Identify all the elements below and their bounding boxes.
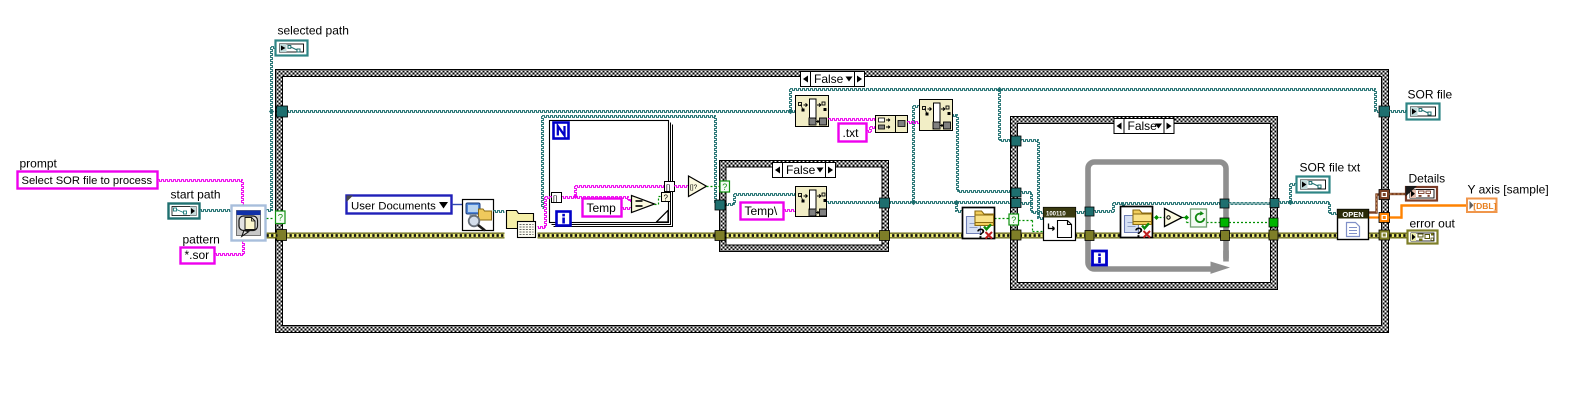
svg-text:selected path: selected path xyxy=(278,24,349,38)
svg-text:.txt: .txt xyxy=(843,126,860,140)
svg-text:[]?: []? xyxy=(690,184,698,191)
svg-text:Temp\: Temp\ xyxy=(745,204,778,218)
svg-text:Y axis [sample]: Y axis [sample] xyxy=(1468,183,1549,197)
svg-text:False: False xyxy=(1128,119,1158,133)
svg-text:User Documents: User Documents xyxy=(351,201,436,213)
svg-text:[]: [] xyxy=(666,183,670,192)
svg-text:[DBL]: [DBL] xyxy=(1473,201,1496,211)
svg-text:?: ? xyxy=(1011,215,1016,225)
svg-text:*.sor: *.sor xyxy=(185,248,210,262)
svg-text:False: False xyxy=(786,163,816,177)
svg-text:?: ? xyxy=(722,182,727,192)
svg-text:error out: error out xyxy=(1410,217,1456,231)
svg-text:pattern: pattern xyxy=(183,233,220,247)
svg-text:SOR file: SOR file xyxy=(1408,88,1453,102)
svg-text:Select SOR file to process: Select SOR file to process xyxy=(22,175,153,187)
svg-text:False: False xyxy=(814,72,844,86)
svg-text:Details: Details xyxy=(1409,172,1446,186)
svg-text:OPEN: OPEN xyxy=(1342,210,1363,219)
svg-text:100110: 100110 xyxy=(1046,212,1066,218)
svg-text:[]: [] xyxy=(553,194,557,203)
svg-text:SOR file txt: SOR file txt xyxy=(1300,161,1361,175)
svg-text:?: ? xyxy=(278,213,283,224)
svg-text:prompt: prompt xyxy=(20,157,58,171)
svg-text:Temp: Temp xyxy=(587,201,617,215)
svg-text:?: ? xyxy=(664,194,669,203)
svg-text:start path: start path xyxy=(171,188,221,202)
